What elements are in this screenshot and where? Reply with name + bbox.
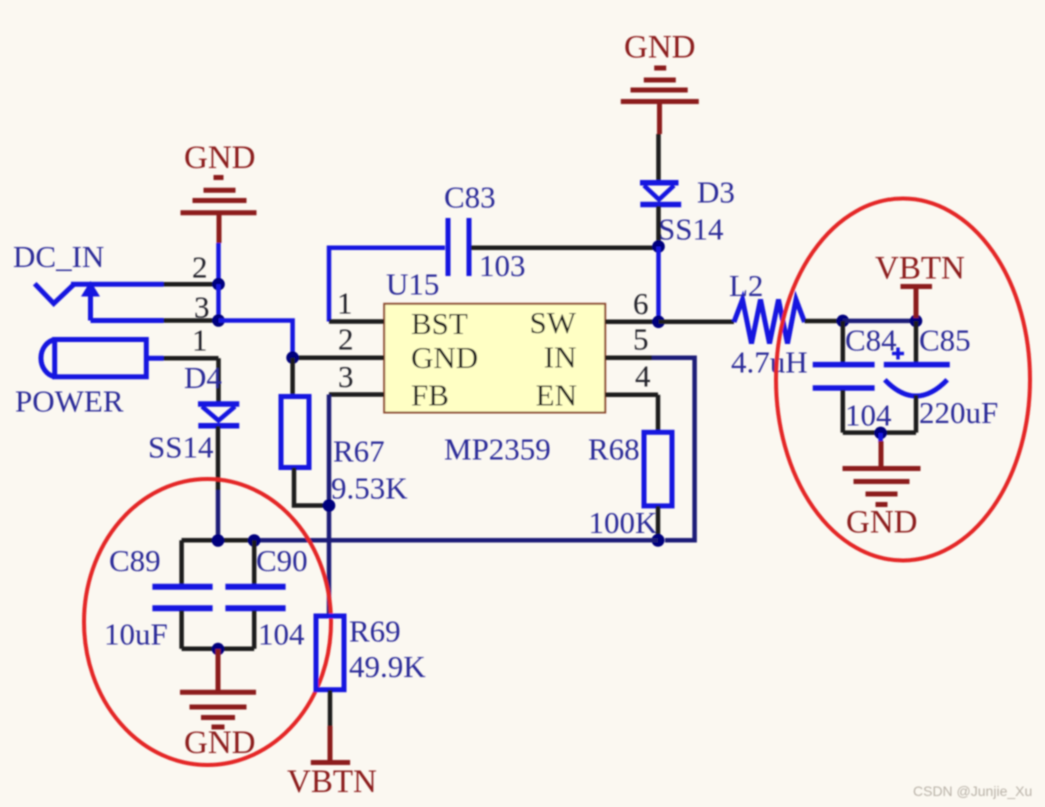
junction D4 / rail [212,534,225,547]
svg-text:C84: C84 [845,323,897,358]
svg-text:4: 4 [635,359,651,394]
connector J? DC jack symbol [35,284,164,321]
svg-text:2: 2 [338,322,354,357]
inductor L2 4.7uH [734,300,805,344]
pin 4 EN [605,393,658,398]
wire pin2 to pin3 [216,284,221,320]
wire C89 C90 bottoms [182,647,255,652]
junction at SW pin 6 [652,316,665,329]
svg-text:103: 103 [479,248,526,283]
svg-text:2: 2 [192,250,208,285]
svg-text:104: 104 [845,398,892,433]
junction at C89/C90 gnd bus [212,643,225,656]
junction at jack pin 3 [212,314,225,327]
wire C84 C85 bottoms [843,430,916,435]
svg-text:VBTN: VBTN [875,251,965,287]
resistor R69 49.9K [316,616,344,690]
ground symbol GND (top right) [621,68,699,134]
svg-text:EN: EN [536,378,577,413]
svg-text:49.9K: 49.9K [349,649,426,684]
junction at U15 GND pin [286,351,299,364]
plus mark of C84 [892,348,904,360]
svg-text:D4: D4 [184,360,222,395]
svg-text:GND: GND [411,340,478,375]
svg-text:VBTN: VBTN [287,764,377,800]
svg-text:4.7uH: 4.7uH [731,345,808,380]
svg-text:GND: GND [846,505,918,541]
wire D4 cathode down to C89 bus [216,426,221,490]
wire junction to ground symbol [878,433,883,443]
wire L2 to output node [805,319,843,324]
power symbol VBTN (right) [901,287,933,319]
annotation ellipse (left) [84,479,331,765]
ground symbol GND (top left) [181,178,257,244]
wire pin1 down to D4 [216,358,221,402]
pin 5 IN [605,355,652,360]
capacitor C85 220uF [914,321,919,363]
IC U15 MP2359 [384,304,605,413]
svg-text:9.53K: 9.53K [331,471,408,506]
wire GND stem to pin2 junction [216,243,221,284]
svg-text:5: 5 [633,322,649,357]
svg-text:C89: C89 [109,543,161,578]
junction D3 / C83 wire [652,240,665,253]
capacitor C90 104 [252,540,257,584]
svg-text:1: 1 [337,286,353,321]
annotation ellipse (right) [776,199,1030,561]
svg-text:IN: IN [544,340,577,375]
svg-text:U15: U15 [386,267,439,302]
pin 2 of jack [164,282,218,287]
wire R67 bottom to FB net [294,468,329,506]
svg-text:GND: GND [184,140,256,176]
svg-text:BST: BST [411,306,468,341]
svg-text:SW: SW [530,305,577,340]
pin 2 GND [295,355,384,360]
pin 1 BST [329,319,384,324]
wire SW to L2 [659,320,735,325]
svg-text:GND: GND [624,30,696,66]
svg-text:6: 6 [633,286,649,321]
wire input rail (long horizontal) [182,538,658,543]
wire C84 node to C85/VBTN node [843,319,916,324]
capacitor C89 10uF [179,540,184,584]
junction FB / R67 / R69 [323,499,336,512]
pin 1 of POWER [164,356,219,361]
svg-text:R68: R68 [588,432,640,467]
svg-text:R69: R69 [349,614,401,649]
wire R68 bottom [656,506,661,540]
wire FB pin down [327,395,332,617]
junction at jack pin 2 [212,278,225,291]
svg-text:GND: GND [184,725,256,761]
svg-text:1: 1 [192,323,208,358]
junction C90 / rail [248,534,261,547]
resistor R67 9.53K [290,358,295,395]
ground symbol GND (bottom right) [843,441,921,505]
wire junction down to SW pin [656,247,661,322]
svg-text:104: 104 [258,617,305,652]
pin 3 of jack [164,318,218,323]
wire R69 bottom to VBTN [328,690,333,726]
svg-text:3: 3 [338,359,354,394]
svg-text:DC_IN: DC_IN [13,239,104,274]
wire right of C83 to D3 node [471,246,659,251]
wire C89 C90 top bar [182,538,255,543]
resistor R68 100K [656,395,661,433]
diode D4 SS14 [198,404,239,426]
wire IN pin to input rail [652,358,695,541]
svg-text:220uF: 220uF [919,395,998,430]
svg-text:FB: FB [411,378,449,413]
svg-text:100K: 100K [589,505,659,540]
junction R68 / input rail [652,534,665,547]
pin 6 SW [605,320,658,325]
pin 3 FB [329,392,384,397]
svg-text:D3: D3 [697,175,735,210]
capacitor C84 104 [841,321,846,363]
power symbol VBTN (bottom) [311,726,350,763]
capacitor C83 103 [448,218,469,276]
wire BST loop left of C83 [329,248,445,322]
svg-text:R67: R67 [333,434,385,469]
svg-text:3: 3 [194,290,210,325]
junction at output GND bus [874,427,887,440]
svg-text:C85: C85 [919,323,971,358]
connector POWER plug symbol [41,340,164,377]
svg-text:SS14: SS14 [148,430,214,465]
svg-text:L2: L2 [729,268,763,303]
svg-text:10uF: 10uF [104,617,168,652]
ground symbol GND (bottom left) [180,649,256,727]
svg-text:POWER: POWER [15,384,124,419]
junction at C84 top [837,315,850,328]
svg-text:SS14: SS14 [658,212,724,247]
wire GND to D3 [656,134,661,182]
wire D3 anode down [656,206,661,247]
svg-text:CSDN @Junjie_Xu: CSDN @Junjie_Xu [913,783,1032,799]
svg-text:MP2359: MP2359 [444,432,551,467]
svg-text:C90: C90 [256,543,308,578]
junction at C85/VBTN [910,315,923,328]
wire pin3 junction to GND pin of U15 [219,321,293,358]
diode D3 SS14 [640,183,681,205]
svg-text:C83: C83 [444,180,496,215]
